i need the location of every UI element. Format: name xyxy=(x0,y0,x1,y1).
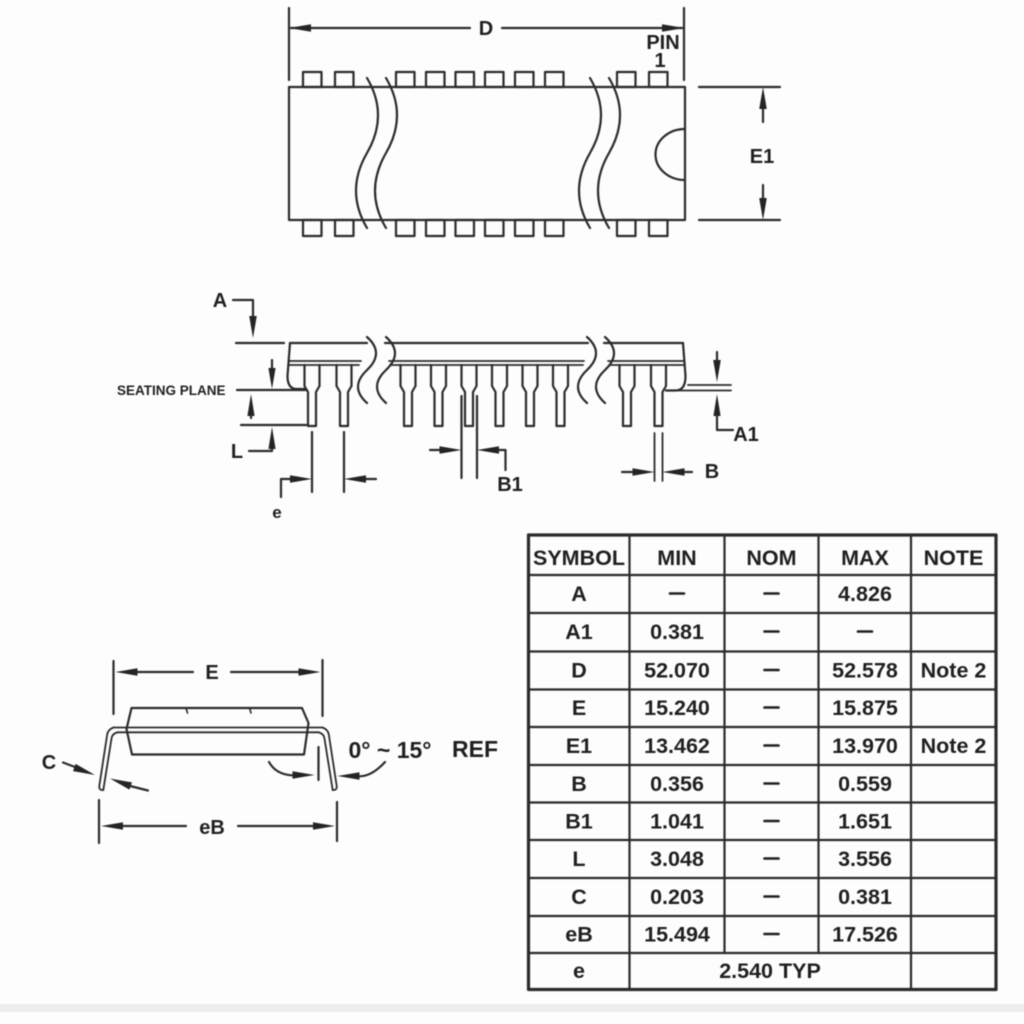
svg-text:1.041: 1.041 xyxy=(650,810,704,834)
svg-text:15.240: 15.240 xyxy=(644,696,710,720)
svg-text:A1: A1 xyxy=(733,424,759,446)
svg-text:52.070: 52.070 xyxy=(644,659,710,683)
mold parting double line xyxy=(114,728,323,733)
B dimension extension lines xyxy=(655,433,663,481)
svg-text:Note 2: Note 2 xyxy=(921,734,987,758)
dimension D extension lines xyxy=(289,8,684,80)
dimension E1 line and arrows xyxy=(759,87,767,220)
table column lines xyxy=(630,535,912,990)
table row E1 xyxy=(566,734,987,758)
mold tick marks on top edge xyxy=(186,708,251,713)
svg-text:0.381: 0.381 xyxy=(650,620,704,644)
label E xyxy=(205,662,218,684)
body segment 2 left break line xyxy=(377,337,395,403)
svg-text:15.875: 15.875 xyxy=(832,696,898,720)
label PIN 1 xyxy=(646,32,679,72)
svg-text:0.356: 0.356 xyxy=(650,772,704,796)
body segment 2 right break line xyxy=(578,337,596,403)
angle arc left with arrow xyxy=(269,762,315,779)
eB dimension line and arrows xyxy=(101,822,335,830)
label D xyxy=(479,18,493,40)
body segment 1 bottom double line xyxy=(289,361,361,365)
package body (end view) xyxy=(127,708,309,755)
lead tip reference line xyxy=(241,424,306,426)
label C with leader arrows xyxy=(42,752,148,791)
side pins segment 3 xyxy=(620,365,667,426)
TABLE xyxy=(529,535,997,990)
B dimension arrows xyxy=(622,468,692,476)
svg-text:0.559: 0.559 xyxy=(838,772,892,796)
body segment 3 bottom double line xyxy=(608,361,684,365)
break lines left pair xyxy=(356,78,397,228)
body segment 3 top edge xyxy=(604,342,683,344)
table outer border xyxy=(529,535,997,990)
B1 dimension extension lines xyxy=(462,396,478,478)
label eB xyxy=(199,817,225,839)
svg-text:L: L xyxy=(572,847,585,871)
up arrow below seating plane xyxy=(247,394,254,418)
svg-text:0.203: 0.203 xyxy=(650,885,704,909)
label e xyxy=(272,503,281,522)
svg-text:0° ~ 15°: 0° ~ 15° xyxy=(349,737,432,763)
svg-text:A1: A1 xyxy=(565,620,593,644)
svg-text:L: L xyxy=(231,441,243,463)
right lead xyxy=(319,728,337,791)
svg-text:E1: E1 xyxy=(566,734,592,758)
svg-text:D: D xyxy=(479,18,493,40)
svg-text:4.826: 4.826 xyxy=(838,582,892,606)
body segment 1 top edge xyxy=(290,342,367,344)
angle vertical reference line xyxy=(317,747,319,780)
table row A xyxy=(571,582,892,606)
svg-text:13.970: 13.970 xyxy=(832,734,898,758)
table row e xyxy=(573,959,821,983)
table row A1 xyxy=(565,620,872,644)
A leader with arrow xyxy=(233,300,257,338)
table row B xyxy=(571,772,892,796)
svg-text:SYMBOL: SYMBOL xyxy=(533,546,625,570)
ENDVIEW xyxy=(42,660,498,843)
table row E xyxy=(572,696,898,720)
seating plane line xyxy=(237,389,306,391)
svg-text:0.381: 0.381 xyxy=(838,885,892,909)
B1 dimension arrows xyxy=(430,446,506,470)
svg-text:MAX: MAX xyxy=(841,546,889,570)
body segment 1 right break line xyxy=(358,337,376,403)
table row D xyxy=(571,659,986,683)
body segment 3 right end flange xyxy=(666,343,686,391)
svg-text:B1: B1 xyxy=(497,474,523,496)
label SEATING PLANE xyxy=(117,383,226,398)
svg-text:C: C xyxy=(42,752,56,774)
A1 up arrow and leader xyxy=(713,394,733,430)
table row L xyxy=(572,847,892,871)
svg-text:A: A xyxy=(213,290,227,312)
svg-text:E: E xyxy=(572,696,586,720)
label angle 0-15 REF xyxy=(349,736,498,763)
down arrow above seating plane xyxy=(268,360,275,389)
e dimension extension lines xyxy=(312,432,344,492)
svg-text:1: 1 xyxy=(654,50,665,72)
table row B1 xyxy=(565,810,892,834)
svg-text:MIN: MIN xyxy=(657,546,696,570)
package body (top view) xyxy=(289,87,685,220)
dimension D line and arrows xyxy=(289,24,684,32)
side pins segment 1 xyxy=(305,365,352,426)
eB dimension extension lines xyxy=(99,800,337,843)
svg-text:Note 2: Note 2 xyxy=(921,659,987,683)
svg-text:eB: eB xyxy=(565,923,592,947)
svg-text:eB: eB xyxy=(199,817,225,839)
scan artifact band bottom xyxy=(0,1004,1024,1012)
A1 down arrow xyxy=(713,352,721,382)
svg-text:13.462: 13.462 xyxy=(644,734,710,758)
svg-text:B: B xyxy=(571,772,587,796)
table row lines xyxy=(529,575,997,953)
angle arc right with arrow xyxy=(338,762,386,780)
svg-text:NOM: NOM xyxy=(746,546,796,570)
pin 1 index notch (semicircle) xyxy=(656,129,686,180)
body segment 1 left end flange xyxy=(288,343,305,389)
E dimension extension lines xyxy=(114,660,323,716)
e dimension arrows xyxy=(281,475,376,497)
label E1 xyxy=(750,146,774,168)
side pins segment 2 xyxy=(401,365,569,426)
svg-text:e: e xyxy=(272,503,281,522)
svg-text:e: e xyxy=(573,959,585,983)
label A1 xyxy=(733,424,759,446)
break lines right pair xyxy=(579,78,620,228)
body segment 3 left break line xyxy=(596,337,614,403)
svg-text:2.540 TYP: 2.540 TYP xyxy=(719,959,821,983)
svg-text:D: D xyxy=(571,659,587,683)
dimension E1 extension lines xyxy=(699,87,780,220)
svg-text:A: A xyxy=(571,582,587,606)
A1 seating reference lines xyxy=(666,385,731,391)
svg-text:E1: E1 xyxy=(750,146,774,168)
svg-text:C: C xyxy=(571,885,587,909)
TOPVIEW xyxy=(289,8,780,236)
svg-text:3.048: 3.048 xyxy=(650,847,704,871)
label A xyxy=(213,290,227,312)
table row eB xyxy=(565,923,898,947)
svg-text:52.578: 52.578 xyxy=(832,659,898,683)
svg-text:NOTE: NOTE xyxy=(924,546,984,570)
bottom pin row xyxy=(303,220,668,236)
top pin row xyxy=(303,72,668,87)
svg-text:B: B xyxy=(705,461,719,483)
body segment 2 bottom double line xyxy=(389,361,584,365)
svg-text:SEATING PLANE: SEATING PLANE xyxy=(117,383,226,398)
table row C xyxy=(571,885,892,909)
left lead xyxy=(99,728,117,791)
svg-text:REF: REF xyxy=(452,736,498,762)
body segment 2 top edge xyxy=(385,342,588,344)
label L with leader arrow xyxy=(231,427,276,463)
svg-text:B1: B1 xyxy=(565,810,593,834)
svg-text:1.651: 1.651 xyxy=(838,810,892,834)
svg-text:17.526: 17.526 xyxy=(832,923,898,947)
E dimension line and arrows xyxy=(116,668,321,676)
label B1 xyxy=(497,474,523,496)
SIDEVIEW xyxy=(117,290,759,522)
svg-text:15.494: 15.494 xyxy=(644,923,710,947)
label B xyxy=(705,461,719,483)
svg-text:3.556: 3.556 xyxy=(838,847,892,871)
top plane reference line xyxy=(236,342,284,344)
table header row xyxy=(533,546,983,570)
svg-text:E: E xyxy=(205,662,218,684)
